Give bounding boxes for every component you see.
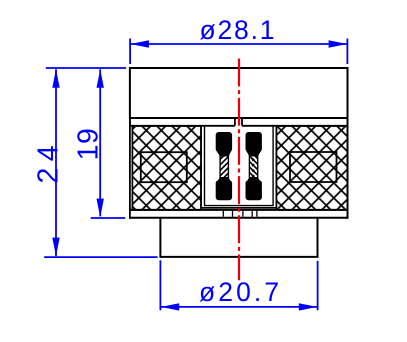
dimension ø28.1: extension lines <box>130 39 347 65</box>
dimension ø28.1: right arrowhead <box>329 40 347 47</box>
dimension 19: dimension line <box>99 69 101 216</box>
right pin: bottom taper <box>246 177 261 183</box>
right pin: bottom cap <box>246 180 262 200</box>
svg-text:ø20.7: ø20.7 <box>199 277 282 307</box>
dimension ø28.1: dimension line <box>130 43 347 45</box>
svg-text:24: 24 <box>32 139 64 184</box>
dimension 24: bottom arrowhead <box>52 238 59 257</box>
flange ticks near center <box>223 211 257 217</box>
flange bottom line <box>130 217 348 219</box>
right pin: top cap <box>246 132 262 152</box>
dimension 19: bottom extension line <box>91 217 126 219</box>
dimension 24: bottom extension line <box>44 256 157 258</box>
dimension ø20.7: dimension line <box>160 306 317 308</box>
left pin: bottom taper <box>216 177 231 183</box>
body top section rectangle <box>130 68 348 118</box>
right knurled block with crosshatch <box>276 126 347 210</box>
right pin: hatched shaft <box>249 154 257 181</box>
dimension ø20.7: left arrowhead <box>161 303 179 310</box>
center slot in seam band <box>235 118 242 126</box>
left pin: hatched shaft <box>220 154 228 181</box>
dimension ø28.1: left arrowhead <box>131 40 149 47</box>
dimension ø20.7: right extension line <box>317 261 319 311</box>
dimension 24: dimension line <box>55 69 57 256</box>
svg-text:19: 19 <box>72 128 104 161</box>
knurl band bottom line <box>130 209 348 211</box>
left window rectangle <box>141 152 187 182</box>
body left edge <box>129 118 131 219</box>
dimension 24: top extension line <box>46 67 126 69</box>
center cavity inner walls <box>205 126 274 206</box>
body right edge <box>347 118 349 219</box>
dimension ø20.7: left extension line <box>159 260 161 310</box>
dimension 19: top arrowhead <box>97 69 104 88</box>
right pin: top taper <box>246 151 261 157</box>
dimension 24: top arrowhead <box>52 69 59 88</box>
bottom section rectangle <box>159 219 318 257</box>
svg-text:ø28.1: ø28.1 <box>200 15 277 45</box>
dimension 19: bottom arrowhead <box>97 199 104 218</box>
red dash-dot vertical centerline <box>238 59 240 281</box>
left pin: top taper <box>216 151 231 157</box>
dimension ø20.7: right arrowhead <box>299 303 317 310</box>
seam band below top section <box>130 118 348 126</box>
center cavity outer walls <box>201 126 276 208</box>
left pin: top cap <box>216 132 232 152</box>
left knurled block with crosshatch <box>132 126 201 210</box>
left pin: bottom cap <box>216 180 232 200</box>
right window rectangle <box>290 152 337 182</box>
